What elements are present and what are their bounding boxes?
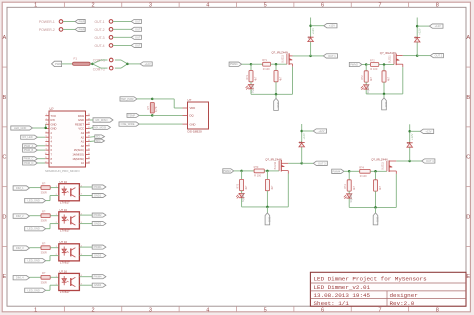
svg-text:Q?_IRLZ44N: Q?_IRLZ44N [380,51,396,55]
junction B1 rail [275,93,278,96]
svg-text:SQX35A: SQX35A [252,83,255,93]
junction B3 input [240,170,243,173]
junction B4 input [348,170,351,173]
flyback diode D4 [407,143,413,147]
svg-text:8: 8 [436,3,439,9]
svg-text:1: 1 [34,3,37,9]
U2 pin1 number [56,186,58,188]
svg-text:4k7: 4k7 [388,76,391,81]
wire ground rail [349,206,396,208]
svg-text:PWM4: PWM4 [94,275,102,279]
net flag LED2+ [92,213,106,217]
wire LED_GND to U1 GND pin [33,127,46,129]
U4 pin3 number [81,254,83,256]
wire DIM1 to R1 [29,187,41,189]
svg-text:RESET: RESET [75,122,84,126]
wire TEMP to R5 bottom [139,114,152,116]
resistor R11 100R [263,62,271,66]
resistor R11 refdes [262,58,267,62]
wire PWM_D to U1 pin 9 [37,162,45,164]
LED4 label [350,193,353,203]
Q2 refdes label [380,51,396,55]
net flag PWM_D [23,161,38,165]
resistor Ro3 330R [41,246,50,250]
svg-text:4k7: 4k7 [271,185,274,190]
wire drain node to OUT flag [417,55,430,57]
Q3 type label [274,161,277,169]
svg-text:A2: A2 [81,135,85,139]
svg-text:4k7: 4k7 [255,76,258,81]
net flag PWR2 [75,27,85,31]
wire drain to node [293,55,311,57]
net flag OUT 3 [313,161,327,165]
resistor R5 label [146,106,150,110]
wire +12V node to flag [311,25,324,27]
junction B3 +12V [300,130,303,133]
net flag OUT 2 [430,53,443,57]
svg-text:RX_LED: RX_LED [23,135,33,139]
U6 pin DQ [190,114,194,118]
U3 value LTV817 [60,229,70,233]
junction B3 rail [266,206,269,209]
junction B4 drain [408,160,411,163]
title text designer [390,292,418,299]
resistor R41 100R [360,169,371,173]
U3 pin2 number [56,222,58,224]
net flag OUT 1 [323,54,337,58]
resistor R21 value [370,67,377,71]
wire +12V riser [416,18,418,56]
svg-text:MX_MISO: MX_MISO [96,118,108,122]
U4 refdes [60,240,68,244]
svg-text:SDA: SDA [96,140,101,143]
wire ONE_WIRE to U6 GND [139,123,182,125]
net flag SDA [95,139,105,143]
resistor Ro2 330R [41,214,50,218]
svg-text:U? 16: U? 16 [60,180,68,184]
junction B4 rail [374,206,377,209]
net flag MX_MISO [93,118,113,122]
svg-text:330R: 330R [41,280,47,284]
net flag PWR input [52,61,62,66]
transistor Q3 IRLZ44N [279,160,288,174]
svg-text:A1: A1 [81,140,85,144]
svg-text:+12V: +12V [302,133,306,140]
wire junction to R31 [242,170,255,172]
svg-text:13.08.2013 19:45: 13.08.2013 19:45 [314,292,371,299]
resistor Ro1 330R [41,186,50,190]
svg-text:PWM1: PWM1 [230,62,238,66]
U6 value label [188,130,203,134]
U6 pin VDD [190,106,196,110]
svg-text:LTV817: LTV817 [60,201,70,205]
net label +12V vertical [417,28,421,35]
resistor RL2 refdes [361,75,364,80]
svg-text:OUT-4: OUT-4 [95,44,105,48]
svg-text:PWR: PWR [55,62,61,66]
svg-text:E: E [466,274,470,280]
junction U1 GND [44,127,47,129]
svg-text:Q?_IRLZ44N: Q?_IRLZ44N [272,51,288,55]
svg-text:MX_MOSI: MX_MOSI [94,125,106,129]
wire F1 to junction [90,63,92,65]
U2 pin2 number [56,194,58,196]
svg-text:E: E [3,274,7,280]
wire merge to +12V flag [128,63,141,65]
net flag MX_MOSI [93,125,111,129]
wire R to LED1 [250,82,252,85]
svg-text:8: 8 [436,307,439,313]
pin circle OUT-4 [109,44,113,48]
resistor Ro3 refdes [42,242,46,246]
wire opto collector out [79,214,92,216]
wire opto emitter out [79,223,92,225]
wire pulldown R12 top [275,64,277,70]
wire +12V riser [409,124,411,161]
net flag LED1+ [92,185,106,189]
U4 pin4 number [81,245,83,247]
svg-text:LED_GND: LED_GND [28,199,40,203]
svg-text:+12V: +12V [410,133,414,140]
svg-text:LTV817: LTV817 [60,229,70,233]
net flag PWM1 [229,62,242,66]
net flag ONE_WIRE [119,122,139,126]
svg-text:2: 2 [92,3,95,9]
svg-text:R?2: R?2 [361,75,364,80]
svg-text:LED_GND: LED_GND [14,126,26,130]
resistor R5 value [154,106,158,112]
resistor Ro4 330R [41,275,50,279]
resistor R12 value [280,76,283,81]
svg-text:4k7: 4k7 [353,185,356,190]
svg-text:5: 5 [264,3,267,9]
net flag PWM4 [332,169,344,173]
wire PWM3 to junction [234,170,242,172]
wire R2 to opto [50,215,59,217]
pin circle COM1 [109,58,113,62]
svg-text:OUT 3: OUT 3 [318,161,326,165]
wire LED to rail [348,199,350,208]
net flag LED3- [92,254,106,258]
wire opto cathode to LED_GND [46,224,59,229]
svg-text:4k7: 4k7 [245,185,248,190]
wire input junction to R4 top [348,171,350,180]
net flag PWM_C [23,157,38,161]
svg-text:R?4: R?4 [359,165,364,169]
net flag +12V fused [140,62,152,66]
net flag DIM2 [13,214,29,218]
diode D3 refdes [299,142,303,145]
svg-text:OUT: OUT [135,43,141,47]
Q2 type label [389,55,392,63]
wire LED to rail [250,89,252,94]
ground flag B2 [382,98,387,110]
title text project [314,276,428,283]
net flag LED4- [92,283,106,287]
pin circle OUT-3 [109,36,113,40]
svg-text:TEMP: TEMP [128,113,135,117]
svg-text:4: 4 [206,307,209,313]
junction B1 drain [309,55,312,58]
svg-text:U? 16: U? 16 [60,240,68,244]
wire R21 to gate [379,64,394,66]
U3 pin1 number [56,214,58,216]
svg-text:GND: GND [51,122,57,126]
wire R to LED4 [348,191,350,194]
wire RXLED to U1 pin 3 [37,136,45,138]
wire +12V riser [310,18,312,56]
wire drain to node [403,55,417,57]
svg-text:+12V: +12V [311,28,315,35]
svg-text:GND: GND [384,102,387,108]
LED2 label [367,84,370,94]
svg-text:330R: 330R [41,251,47,255]
U3 refdes [60,208,68,212]
svg-text:VDD: VDD [190,106,196,110]
ground flag B3 [265,213,270,225]
svg-text:PWM_A: PWM_A [24,144,34,148]
wire OUT-3 to flag [113,36,131,38]
net flag OUT_2 [131,27,141,31]
wire pulldown R42 top [375,171,377,180]
wire R42 to rail [375,191,377,207]
resistor R21 refdes [370,59,375,63]
wire +12V riser [301,124,303,163]
wire +12V node to flag [417,25,429,27]
resistor RL3 refdes [236,183,239,188]
pin circle OUT-1 [109,20,113,24]
flyback diode D1 [308,37,314,41]
wire OUT-2 to flag [113,28,131,30]
U6 pin GND [190,122,196,126]
resistor R32 pulldown [265,179,269,190]
wire drain to node [396,160,409,162]
svg-text:OUT: OUT [135,19,141,23]
wire PWM_B to U1 pin 6 [37,149,45,151]
wire COM1 to merge [115,60,128,64]
wire source to rail [292,67,294,95]
svg-text:LTV817: LTV817 [60,290,70,294]
U5 pin1 number [56,276,58,278]
pin circle POWER-2 [59,28,63,32]
svg-text:GND3: GND3 [94,254,102,258]
wire OUT-4 to flag [113,44,131,46]
wire R5 top to U6 VDD [152,99,182,108]
U1 refdes [50,107,54,111]
wire to COM2 pin [93,64,108,68]
Q4 type label [382,162,385,170]
wire U1 to SDA [90,140,95,143]
wire ground rail [251,93,293,95]
wire opto collector out [79,276,92,278]
fuse F1 [73,62,91,65]
wire +12V node to flag [410,130,421,132]
svg-text:4k7: 4k7 [280,76,283,81]
wire opto emitter out [79,284,92,286]
title text sheet [314,300,350,307]
U4 pin2 number [56,254,58,256]
wire DIM2 to R2 [29,215,41,217]
title text version [314,284,371,291]
svg-text:7: 7 [378,307,381,313]
fuse F1 label [74,57,78,61]
svg-text:R?: R? [42,242,46,246]
svg-text:SQX35A: SQX35A [350,193,353,203]
wire U1 to SCL [90,136,95,139]
junction B2 input [365,63,368,66]
resistor R32 value [271,185,274,190]
svg-text:RXI: RXI [51,118,56,122]
U6 refdes [188,98,192,102]
resistor R41 refdes [359,165,364,169]
svg-text:R 100: R 100 [360,174,367,178]
U3 internal LED and phototransistor [62,215,76,226]
wire input junction to R2 top [365,65,367,71]
flyback diode D3 [299,143,305,147]
resistor RL3 value [245,185,248,190]
net flag LED4+ [92,275,106,279]
svg-text:GND4: GND4 [94,283,102,287]
svg-text:6: 6 [321,307,324,313]
svg-text:+12V: +12V [435,24,441,28]
resistor R12 pulldown [274,71,278,82]
svg-text:DS-18B20: DS-18B20 [188,130,203,134]
wire PWM_C to U1 pin 8 [37,158,45,160]
title block box [310,272,466,306]
svg-text:R?: R? [146,106,150,110]
wire R4 to opto [50,276,59,278]
net flag TEMP [127,113,139,117]
wire opto emitter out [79,255,92,257]
svg-text:+12V: +12V [417,28,421,35]
junction B1 +12V [309,24,312,27]
wire drain node to OUT flag [302,162,314,164]
net flag OUT_4 [131,43,141,47]
svg-text:4k7: 4k7 [379,185,382,190]
label OUT-3 [95,36,105,40]
LED LED2 [361,85,369,90]
junction R5 bottom [151,114,154,117]
label OUT-1 [95,20,105,24]
svg-text:R?1: R?1 [262,58,267,62]
net flag PWR1 [75,19,85,23]
svg-text:OUT 2: OUT 2 [435,54,443,58]
wire R1 to opto [50,187,59,189]
svg-text:U?: U? [188,98,192,102]
svg-text:PWR: PWR [79,27,85,31]
resistor R11 value [263,67,270,71]
title text revision [390,300,415,307]
resistor RL1 value [255,76,258,81]
net flag +12V B3 [313,129,326,133]
U5 pin3 number [81,283,83,285]
svg-text:R?3: R?3 [254,165,259,169]
svg-text:PWM2: PWM2 [94,213,102,217]
U3 pin4 number [81,213,83,215]
svg-text:PWM3: PWM3 [223,169,231,173]
net flag PWM3 [223,169,234,173]
U5 refdes [60,270,68,274]
svg-text:PWM2: PWM2 [350,63,358,67]
title text date [314,292,371,299]
svg-text:R?: R? [42,210,46,214]
svg-text:LED_GND: LED_GND [28,288,40,292]
resistor R21 100R [370,63,378,67]
U5 value LTV817 [60,290,70,294]
svg-text:F1: F1 [74,57,78,61]
wire opto cathode to LED_GND [46,256,59,261]
net flag PWM2 [349,62,362,66]
resistor RL4 refdes [344,184,347,189]
wire gnd stub [383,94,385,98]
optocoupler U4 box [59,244,80,261]
resistor R41 value [360,174,367,178]
wire GND pin tie [45,124,47,128]
svg-text:3: 3 [149,307,152,313]
wire POWER-1 to flag [63,21,75,23]
svg-text:C: C [2,155,6,161]
optocoupler U5 box [59,273,80,290]
wire gnd stub [275,94,277,98]
svg-text:LED_GND: LED_GND [28,259,40,263]
wire DIM3 to R3 [29,247,41,249]
U2 refdes [60,180,68,184]
diode D2 refdes [415,37,419,40]
LED3 label [242,192,245,202]
junction B3 gate [266,170,269,173]
wire R to LED3 [241,191,243,194]
svg-text:U? 16: U? 16 [60,270,68,274]
wire PWR to F1 [62,63,73,65]
wire to COM1 pin [93,60,108,64]
svg-text:5: 5 [264,307,267,313]
svg-text:LED Dimmer_v2.01: LED Dimmer_v2.01 [314,284,371,291]
svg-text:DIM_4: DIM_4 [16,276,24,280]
svg-text:+12V: +12V [425,129,431,133]
label COM?-1 [93,58,105,62]
wire gnd stub [266,207,268,213]
U4 value LTV817 [60,261,70,265]
svg-text:A: A [3,35,7,41]
svg-text:14(MISO): 14(MISO) [72,153,84,157]
optocoupler U2 box [59,184,80,201]
net flag LED3+ [92,245,106,249]
U1 pin stubs [45,116,89,163]
label POWER-2 [39,28,55,32]
ground flag B4 [373,213,378,225]
LED1 label [252,83,255,93]
svg-text:GND: GND [268,217,271,223]
svg-text:Q?_IRLZ44N: Q?_IRLZ44N [371,158,387,162]
net flag LED2- [92,222,106,226]
wire PWM1 to junction [242,63,251,65]
svg-text:DIM_1: DIM_1 [16,186,24,190]
pin circle OUT-2 [109,28,113,32]
svg-text:R 100: R 100 [370,67,377,71]
svg-text:R 100: R 100 [254,174,261,178]
U5 pin4 number [81,275,83,277]
U2 value LTV817 [60,201,70,205]
svg-text:330R: 330R [41,219,47,223]
wire U1 to MX_MOSI [90,127,93,128]
svg-text:R?: R? [42,181,46,185]
resistor RL2 4k7 [364,71,368,82]
junction B4 +12V [408,130,411,133]
junction COM merge [126,63,129,66]
svg-text:Rev:2.0: Rev:2.0 [390,300,415,307]
svg-text:SQX35A: SQX35A [367,84,370,94]
resistor RL3 4k7 [240,179,244,190]
